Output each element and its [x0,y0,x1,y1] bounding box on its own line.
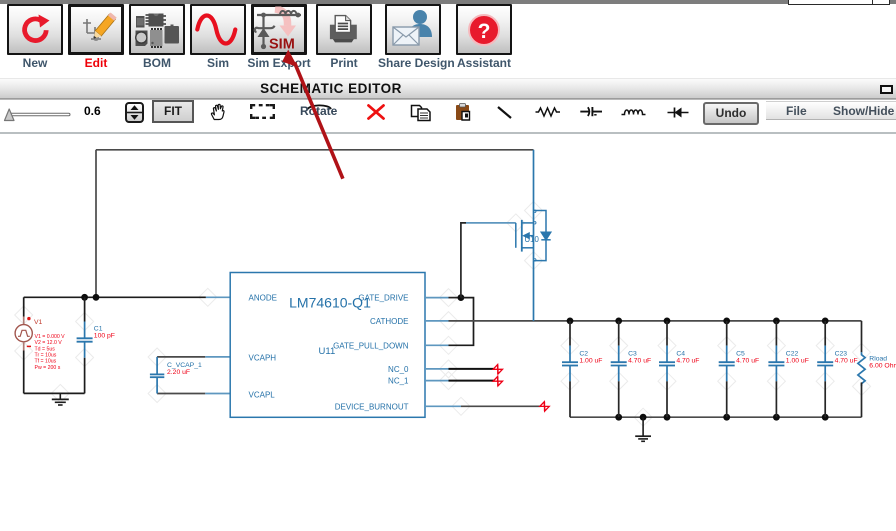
junction dot gate drive [458,294,465,301]
delete X [366,103,386,121]
svg-text:2.20 uF: 2.20 uF [167,369,190,376]
op-amp U11 LM74610-Q1 body [230,273,425,418]
wire cathode rail [449,320,862,322]
junction dot C4 top [664,318,671,325]
junction dot C5 bottom [723,414,730,421]
pin stub NC_1 [425,380,449,382]
wire VCAPL net [157,393,230,395]
no-connect NC_0 [493,365,502,374]
svg-text:V2 = 12.0 V: V2 = 12.0 V [35,340,63,346]
value Rload 6.00 Ohm [869,362,896,369]
value C23 4.70 uF [835,357,858,364]
label C2 [579,351,588,358]
resistor Rload [858,321,865,417]
value 2.20 uF [167,369,190,376]
label C23 [835,351,848,358]
svg-text:ANODE: ANODE [249,293,277,302]
capacitor C22 [768,321,784,417]
wire bottom rail [570,416,862,418]
net endpoint diamonds [15,202,871,427]
pin label GATE_DRIVE [358,293,408,302]
svg-text:1.00 uF: 1.00 uF [579,357,602,364]
capacitor C1 [77,297,93,393]
label Rload [869,355,887,362]
svg-text:NC_1: NC_1 [388,377,409,386]
ground GND1 [52,393,69,405]
paste [455,103,472,121]
value C2 1.00 uF [579,357,602,364]
wire NC_0 [449,368,494,370]
pin label ANODE [249,293,277,302]
svg-text:NC_0: NC_0 [388,365,409,374]
svg-text:DEVICE_BURNOUT: DEVICE_BURNOUT [335,402,409,411]
junction dot C3 top [615,318,622,325]
junction dot B [93,294,100,301]
rotate [303,102,343,114]
spinner [125,102,144,123]
zoom slider [0,99,110,133]
transistor Q10 drain lead [533,150,535,211]
wire VCAPH net [157,356,230,358]
label C22 [786,351,799,358]
wire gate riser [461,223,466,298]
capacitor C4 [659,321,675,417]
top gray strip [0,0,896,4]
label C1 [94,326,103,333]
voltage source V1 [15,317,32,347]
svg-text:CATHODE: CATHODE [370,317,409,326]
label V1 [34,319,43,326]
svg-text:Rload: Rload [869,355,887,362]
junction dot C22 bottom [773,414,780,421]
svg-text:U10: U10 [525,235,540,244]
diode tool [667,106,689,119]
junction dot C22 top [773,318,780,325]
junction dot gnd node [640,414,647,421]
svg-text:Tf = 10us: Tf = 10us [35,359,57,365]
wire DEVICE_BURNOUT [461,405,541,407]
pin label CATHODE [370,317,409,326]
svg-text:100 pF: 100 pF [94,333,115,340]
svg-text:4.70 uF: 4.70 uF [736,357,759,364]
pin stub CATHODE [425,320,449,322]
wire bottom return [24,392,85,394]
hand icon [210,103,228,121]
value C5 4.70 uF [736,357,759,364]
junction dot C23 bottom [822,414,829,421]
label LM74610-Q1 [289,295,371,311]
toolbar buttons [7,4,63,55]
junction dot A [81,294,88,301]
wire top horizontal [96,149,534,151]
pin label NC_0 [388,365,409,374]
capacitor C3 [611,321,627,417]
svg-text:GATE_PULL_DOWN: GATE_PULL_DOWN [333,341,409,350]
label C4 [676,351,685,358]
svg-text:4.70 uF: 4.70 uF [676,357,699,364]
pin stub DEVICE_BURNOUT [425,405,461,407]
pin label VCAPL [249,391,276,400]
junction dot C4 bottom [664,414,671,421]
svg-text:Td = 5us: Td = 5us [35,346,56,352]
inductor tool [621,106,646,117]
transistor U10 MOSFET [516,211,551,261]
svg-text:1.00 uF: 1.00 uF [786,357,809,364]
no-connect NC_1 [493,377,502,386]
wire gate drive to pulldown [449,298,474,346]
svg-text:VCAPL: VCAPL [249,391,276,400]
copy [410,104,432,122]
label U11 [319,346,336,357]
line tool [496,105,513,120]
tool row [0,99,896,133]
label C_VCAP_1 [167,362,202,369]
value C4 4.70 uF [676,357,699,364]
pin stub NC_0 [425,368,449,370]
pin mark source [535,259,537,262]
svg-text:GATE_DRIVE: GATE_DRIVE [358,293,408,302]
capacitor C_VCAP_1 [150,357,164,394]
capacitor C23 [817,321,833,417]
pin mark gate [535,222,537,225]
svg-text:C1: C1 [94,326,103,333]
svg-text:6.00 Ohm: 6.00 Ohm [869,362,896,369]
pin mark drain [535,210,537,213]
pin stub GATE_DRIVE [425,297,462,299]
schematic editor title bar [0,78,896,99]
capacitor C2 [562,321,578,417]
svg-text:4.70 uF: 4.70 uF [628,357,651,364]
partial dropdown top right [788,0,876,5]
svg-text:V1: V1 [34,319,43,326]
wire left vertical riser [95,150,97,297]
svg-text:VCAPH: VCAPH [249,354,277,363]
wire input rail [24,296,206,298]
resistor tool [535,106,561,118]
label C3 [628,351,637,358]
ground GND2 [635,417,651,441]
capacitor tool [579,104,603,120]
marquee select [250,104,275,119]
svg-text:4.70 uF: 4.70 uF [835,357,858,364]
junction dot C23 top [822,318,829,325]
wire NC_1 [449,380,494,382]
wire V1 top lead [23,297,25,324]
svg-text:Pw = 200 s: Pw = 200 s [35,365,61,371]
junction dot C5 top [723,318,730,325]
pin label VCAPH [249,354,277,363]
svg-text:Tr = 10us: Tr = 10us [35,353,57,359]
label C5 [736,351,745,358]
V1 parameter values [35,334,66,371]
capacitor C5 [719,321,735,417]
junction dot C2 top [567,318,574,325]
annotation red arrow [282,50,343,179]
label U10 [525,235,540,244]
pin stub GATE_PULL_DOWN [425,344,449,346]
no-connect DEVICE_BURNOUT [540,402,549,411]
value C1 100 pF [94,333,115,340]
transistor Q10 source lead [533,261,535,321]
pin label NC_1 [388,377,409,386]
wire gate horizontal [466,222,516,224]
pin label DEVICE_BURNOUT [335,402,409,411]
junction dot C3 bottom [615,414,622,421]
value C22 1.00 uF [786,357,809,364]
wire V1 bottom lead [23,342,25,394]
value C3 4.70 uF [628,357,651,364]
svg-text:V1 = 0.000 V: V1 = 0.000 V [35,334,66,340]
pin stub ANODE [206,296,230,298]
pin label GATE_PULL_DOWN [333,341,409,350]
svg-text:C_VCAP_1: C_VCAP_1 [167,362,202,369]
